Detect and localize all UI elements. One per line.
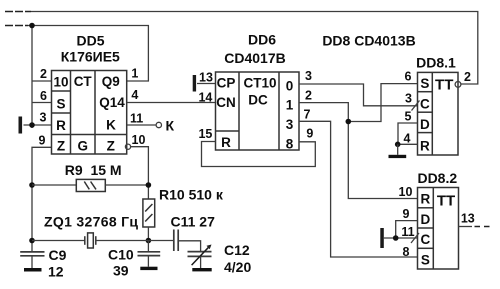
svg-text:1: 1 [131, 67, 138, 81]
wire DD8.2 output 13 [459, 226, 473, 228]
wire rail2 to DD5 pin1 [28, 26, 148, 82]
svg-text:C9: C9 [49, 247, 67, 263]
svg-text:C10: C10 [108, 247, 134, 263]
svg-text:CN: CN [216, 95, 236, 110]
svg-text:К: К [166, 118, 175, 134]
svg-text:C: C [421, 232, 431, 247]
wire DD5 pin9 down to R9 node [32, 147, 52, 251]
svg-text:D: D [420, 117, 430, 132]
DD5 pin10 inversion circle [125, 144, 130, 149]
wire DD8.2 C [384, 237, 418, 239]
svg-text:8: 8 [286, 137, 294, 152]
connector bar DD6 CP [193, 75, 196, 92]
svg-text:R: R [221, 135, 231, 150]
svg-text:9: 9 [403, 207, 410, 221]
DD8.2 D stub [396, 221, 418, 238]
svg-text:Q14: Q14 [99, 95, 125, 110]
DD5 inner labels [53, 74, 125, 154]
counter DD6 box [216, 72, 300, 150]
svg-text:R9 15 М: R9 15 М [65, 162, 122, 178]
DD8.1 output circle [455, 82, 461, 88]
capacitor C11 [174, 230, 178, 252]
junction DD8.2 DC [393, 235, 399, 241]
svg-text:13: 13 [461, 212, 475, 226]
ground bar C12 [192, 268, 211, 271]
svg-text:TT: TT [435, 77, 453, 94]
svg-text:2: 2 [40, 67, 47, 81]
svg-text:8: 8 [403, 245, 410, 259]
wire DD6 out1 to junction [299, 103, 348, 122]
svg-text:DD8.2: DD8.2 [417, 170, 457, 186]
svg-text:G: G [77, 139, 88, 154]
svg-text:R: R [420, 139, 430, 154]
svg-text:11: 11 [401, 225, 414, 239]
wire C12 to ground [200, 256, 202, 268]
wire output 13 dashed [475, 226, 491, 228]
svg-text:R: R [421, 192, 431, 207]
wire DD5 pin10 to R10 node [131, 147, 149, 199]
svg-text:S: S [420, 76, 429, 91]
wire C11 to C12 [178, 241, 200, 252]
svg-text:C12: C12 [224, 242, 250, 258]
connector bar DD8.2 C [380, 228, 384, 248]
svg-text:DC: DC [248, 92, 268, 107]
svg-text:14: 14 [198, 91, 212, 105]
wire rail1 top [31, 12, 478, 85]
svg-text:3: 3 [405, 92, 412, 106]
svg-text:39: 39 [113, 263, 129, 279]
svg-text:4: 4 [404, 132, 411, 146]
DD5 pin numbers right [130, 67, 146, 148]
svg-text:10: 10 [53, 75, 68, 90]
wire to ground bar [397, 144, 399, 155]
wire DD8.1 D stub [398, 123, 418, 144]
svg-text:DD8 CD4013B: DD8 CD4013B [322, 33, 415, 49]
svg-text:12: 12 [48, 263, 64, 279]
svg-text:Z: Z [57, 139, 65, 154]
junction rail2 [29, 23, 35, 29]
svg-text:CT10: CT10 [243, 76, 276, 91]
svg-text:S: S [421, 253, 430, 268]
svg-text:R: R [56, 118, 66, 133]
junction pin3 [29, 122, 35, 128]
svg-text:2: 2 [305, 89, 312, 103]
svg-text:S: S [56, 97, 65, 112]
junction DD8.1 DR [395, 142, 401, 148]
junction R10 bottom [146, 238, 152, 244]
flip-flop DD8.1 box [418, 72, 459, 155]
wire DD5 pin11 K out [127, 124, 156, 126]
wire DD5 pin3 [24, 124, 52, 126]
junction R9 right [146, 182, 152, 188]
wire DD5 pin2 [32, 80, 52, 82]
svg-text:CD4017B: CD4017B [224, 50, 285, 66]
svg-text:Z: Z [107, 139, 115, 154]
svg-text:4/20: 4/20 [224, 259, 251, 275]
wire left vertical upper node [31, 26, 33, 129]
junction R9 left [29, 182, 35, 188]
wire R10 bottom [147, 227, 149, 241]
svg-text:Q9: Q9 [102, 74, 120, 89]
resistor R9 [76, 179, 105, 191]
svg-text:5: 5 [405, 110, 412, 124]
DD8.1 inner labels [420, 76, 453, 154]
svg-text:DD6: DD6 [248, 32, 276, 48]
svg-text:K: K [106, 118, 116, 133]
svg-text:DD8.1: DD8.1 [416, 55, 456, 71]
capacitor C10 [147, 241, 149, 252]
svg-text:9: 9 [39, 134, 46, 148]
wire ZQ1 line left [32, 240, 85, 242]
svg-text:CT: CT [74, 74, 93, 89]
svg-text:4: 4 [131, 88, 138, 102]
svg-text:7: 7 [304, 108, 311, 122]
C12 arrow [192, 247, 209, 265]
svg-text:10: 10 [399, 185, 413, 199]
svg-text:2: 2 [464, 70, 471, 84]
wire DD6 R loopback [202, 142, 316, 167]
svg-text:C11 27: C11 27 [171, 214, 216, 230]
svg-text:13: 13 [199, 71, 213, 85]
svg-text:CP: CP [217, 76, 236, 91]
svg-text:10: 10 [132, 133, 146, 147]
wire DD8.1 R stub [398, 143, 418, 145]
ground bar DD8.1 [389, 155, 407, 158]
DD8.2 C dynamic slash [411, 233, 419, 243]
wire R9 line left [32, 184, 76, 186]
svg-text:6: 6 [405, 70, 412, 84]
wire R9 right [105, 184, 148, 186]
crystal ZQ1 [85, 233, 96, 248]
svg-text:DD5: DD5 [76, 33, 104, 49]
terminal K circle [156, 122, 161, 127]
wire junction down to DD8.2 R [348, 122, 417, 199]
counter DD5 box [52, 71, 127, 155]
svg-text:1: 1 [286, 98, 294, 113]
capacitor C12 variable [188, 252, 212, 257]
ground bar C10 [140, 267, 157, 270]
svg-text:R10 510 к: R10 510 к [159, 187, 224, 203]
capacitor C9 [20, 252, 44, 256]
junction out1 [346, 119, 352, 125]
wire DD5 pin4 Q14 to DD6 CN [127, 102, 216, 104]
wire DD5 pin6 [32, 102, 52, 104]
wire junction to DD8.1 S [348, 84, 417, 122]
DD6 inner labels [216, 76, 293, 152]
DD8.2 pin numbers [399, 185, 415, 259]
wire DD6 out3 to DD8.2 S [299, 121, 418, 257]
svg-text:C: C [420, 97, 430, 112]
svg-text:3: 3 [286, 117, 294, 132]
svg-text:К176ИЕ5: К176ИЕ5 [61, 49, 120, 65]
svg-text:11: 11 [130, 112, 143, 126]
connector bar X1 [19, 117, 23, 134]
svg-text:TT: TT [437, 193, 455, 210]
ground bar C9 [24, 268, 42, 272]
svg-text:0: 0 [286, 79, 294, 94]
svg-text:15: 15 [198, 127, 212, 141]
DD6 pin numbers [198, 69, 313, 141]
junction ZQ1 left [29, 238, 35, 244]
DD5 pin numbers left [39, 67, 48, 148]
resistor R10 [143, 199, 155, 227]
svg-text:6: 6 [40, 89, 47, 103]
svg-text:9: 9 [306, 127, 313, 141]
wire DD6 pin13 [197, 83, 216, 85]
wire ZQ1 right [96, 240, 149, 242]
wire rail1 dashed lead [5, 11, 31, 13]
DD8.2 inner labels [421, 192, 456, 268]
flip-flop DD8.2 box [418, 188, 459, 270]
wire DD6 out0 to DD8.1 C [299, 84, 418, 106]
DD8.1 C dynamic slash [412, 101, 420, 111]
svg-text:3: 3 [40, 111, 47, 125]
wire rail2 dashed lead [5, 25, 28, 27]
svg-text:3: 3 [305, 69, 312, 83]
wire to C11 [148, 240, 173, 242]
svg-text:D: D [421, 212, 431, 227]
DD8.1 pin numbers [404, 70, 472, 146]
svg-text:ZQ1 32768 Гц: ZQ1 32768 Гц [44, 214, 138, 230]
